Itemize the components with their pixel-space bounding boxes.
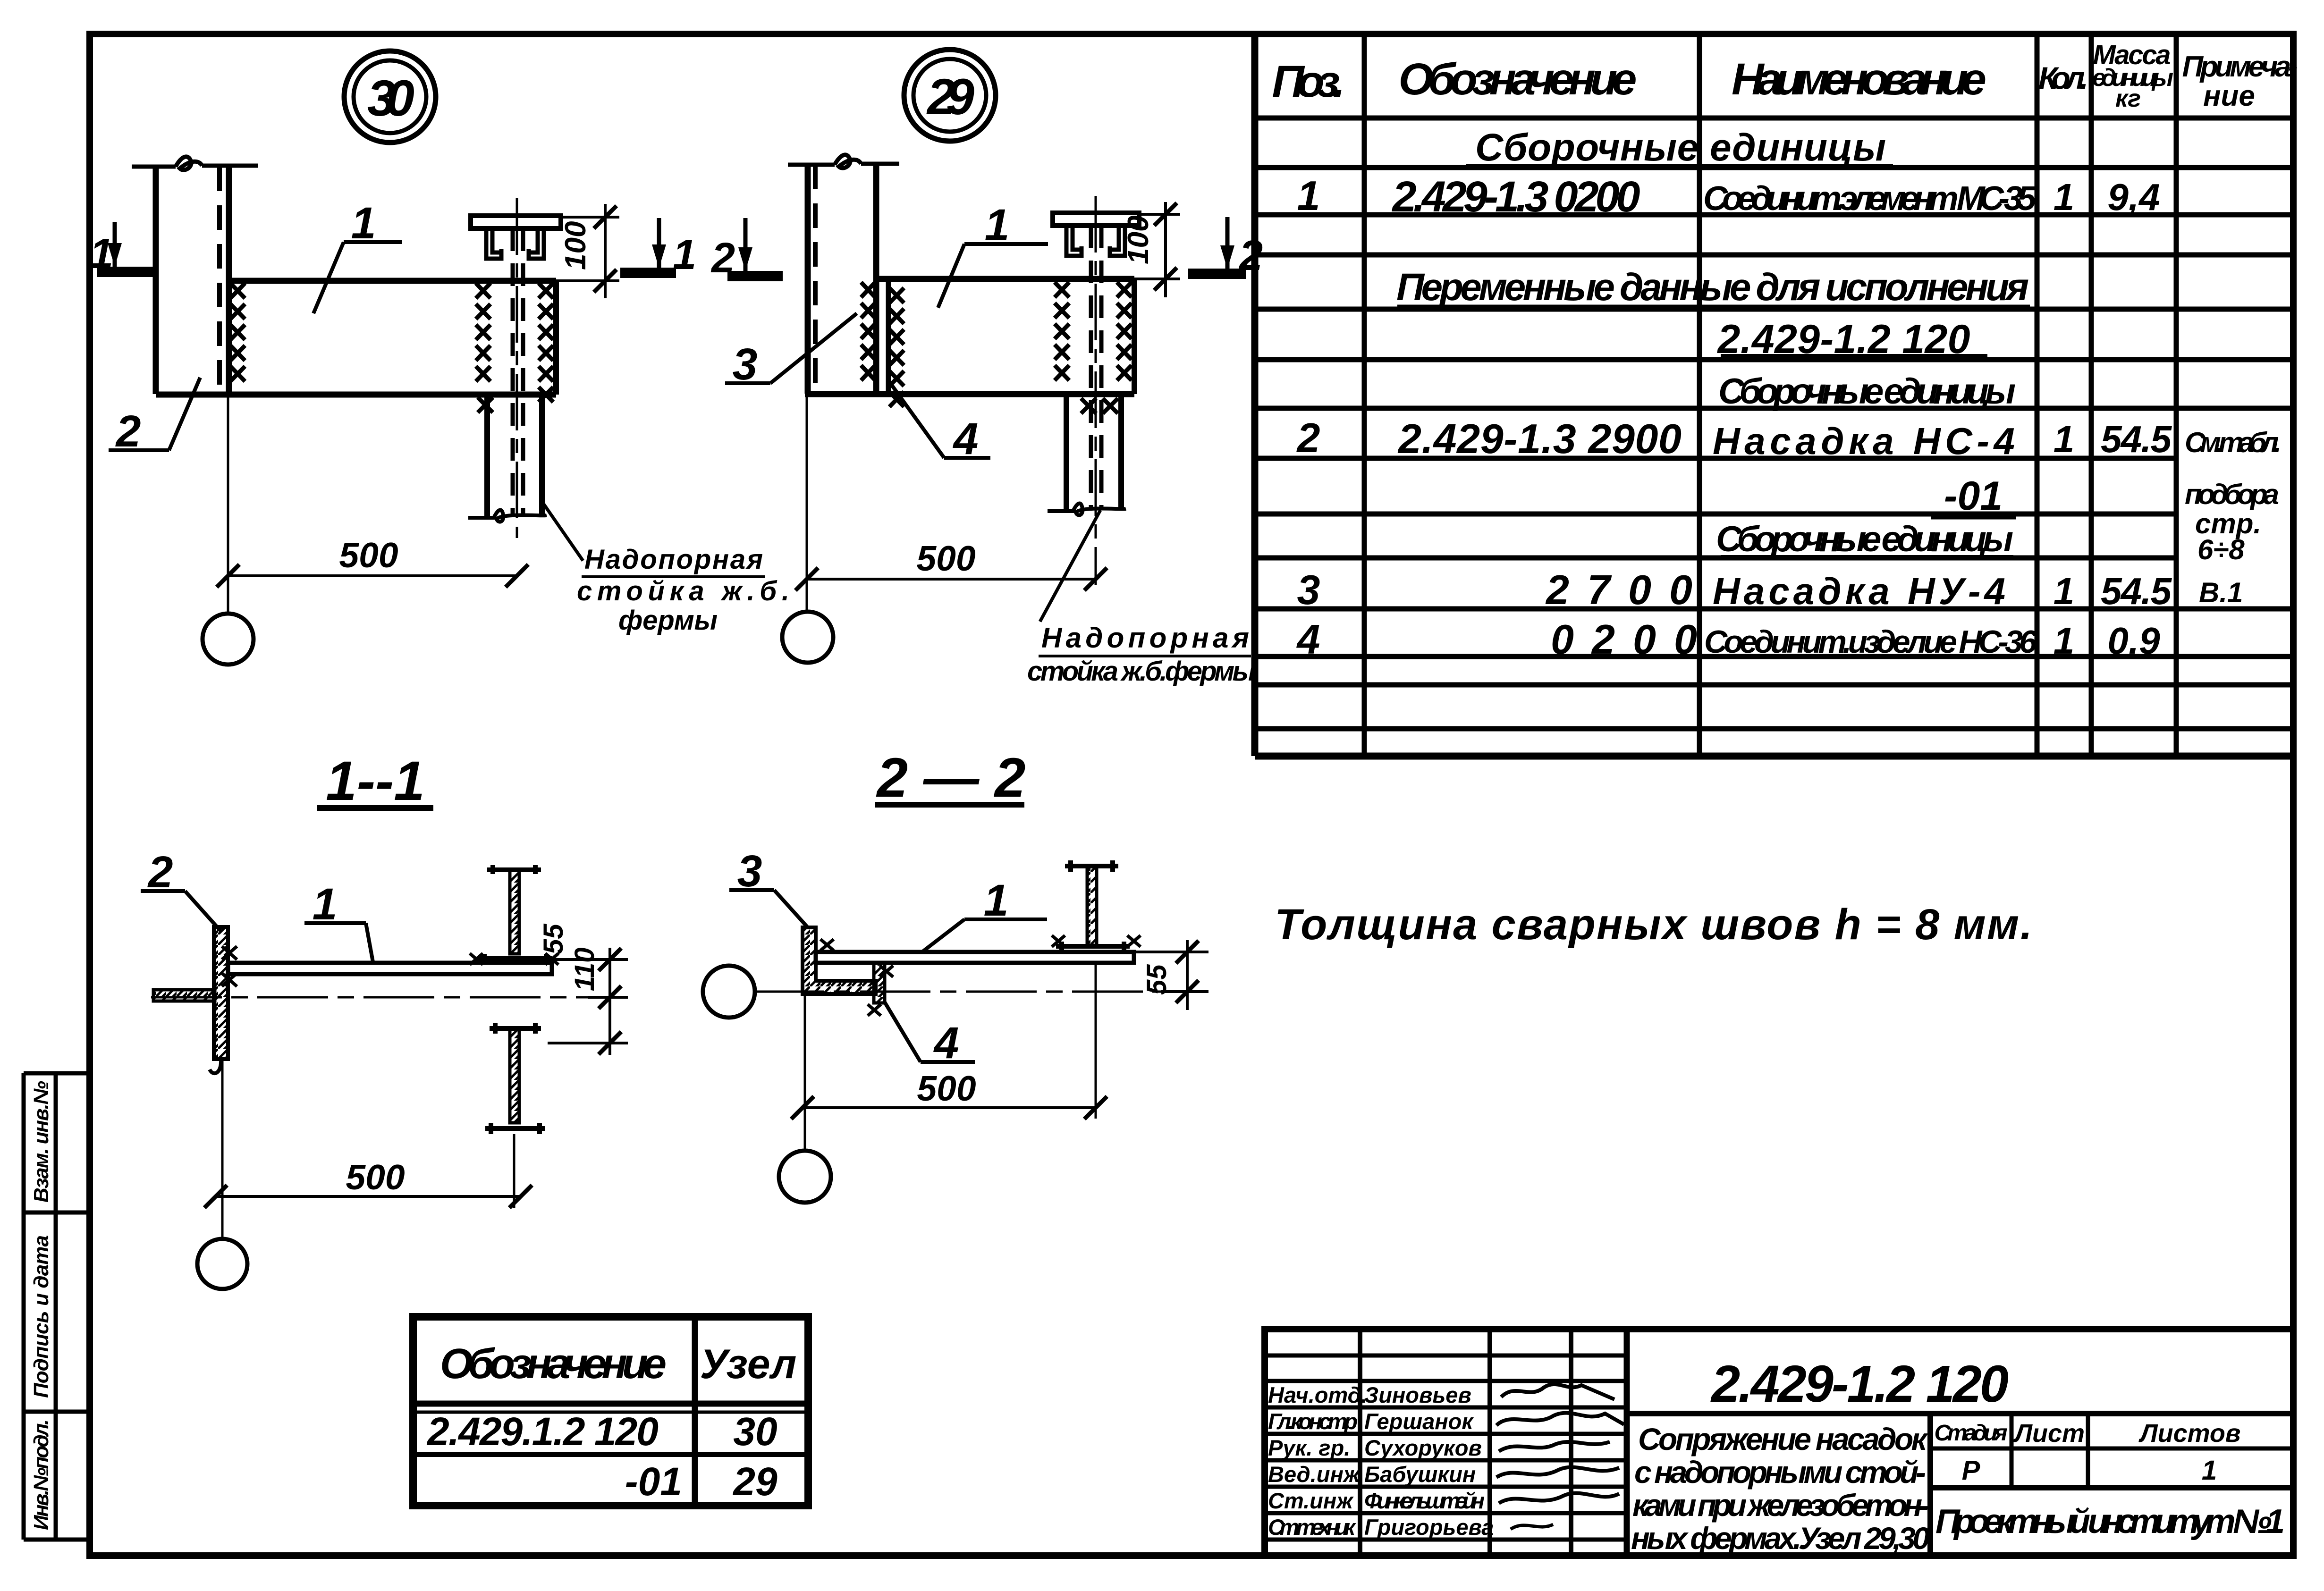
s22 leader 3 bbox=[729, 890, 808, 928]
column bottom break line bbox=[1048, 504, 1126, 515]
svg-text:2: 2 bbox=[115, 406, 141, 456]
leader 4 bbox=[892, 385, 990, 458]
signature table horizontals bbox=[1265, 1354, 1627, 1358]
svg-text:2.429-1.3 0200: 2.429-1.3 0200 bbox=[1392, 173, 1640, 221]
svg-text:500: 500 bbox=[917, 1069, 976, 1108]
leader 1 bbox=[938, 244, 1048, 308]
beam bottom line bbox=[805, 391, 1134, 397]
svg-text:2: 2 bbox=[147, 847, 173, 897]
s22 grid circle left bbox=[703, 966, 755, 1018]
dimension 500 bbox=[228, 574, 517, 577]
stadiya list listov box bbox=[1927, 1414, 1933, 1556]
column top edge with break bbox=[132, 157, 258, 170]
svg-text:подбора: подбора bbox=[2185, 479, 2279, 510]
svg-text:500: 500 bbox=[346, 1157, 405, 1197]
svg-text:Сборочные единицы: Сборочные единицы bbox=[1475, 126, 1886, 169]
stakan left wall with hook bbox=[486, 228, 501, 259]
svg-text:стойка ж.б.фермы: стойка ж.б.фермы bbox=[1027, 656, 1256, 687]
svg-text:Взам. инв.№: Взам. инв.№ bbox=[30, 1081, 53, 1203]
svg-text:1: 1 bbox=[984, 875, 1009, 926]
section mark 2 left bbox=[727, 271, 783, 281]
svg-text:3: 3 bbox=[733, 339, 758, 389]
stakan right wall with hook bbox=[1110, 226, 1125, 256]
s11 axis line bbox=[151, 996, 625, 999]
svg-text:1: 1 bbox=[90, 230, 113, 278]
svg-text:Нач.отд.: Нач.отд. bbox=[1268, 1382, 1368, 1407]
beam bottom line bbox=[156, 392, 556, 398]
stakan axis line bbox=[516, 198, 518, 538]
doc number box bbox=[1627, 1411, 2293, 1416]
s11 weld marks bbox=[222, 946, 558, 986]
weld strip left of stakan bbox=[476, 283, 490, 381]
svg-text:Бабушкин: Бабушкин bbox=[1364, 1462, 1476, 1487]
column hidden dashed line bbox=[813, 165, 818, 394]
svg-text:500: 500 bbox=[916, 539, 975, 578]
section mark 2 right bbox=[1188, 269, 1246, 279]
svg-text:3: 3 bbox=[1297, 566, 1320, 613]
svg-text:2: 2 bbox=[710, 235, 735, 282]
s22 leader 4 bbox=[884, 1001, 975, 1062]
axis line under column bbox=[227, 395, 229, 614]
svg-text:Обозначение: Обозначение bbox=[440, 1340, 667, 1388]
cap plate of nasadka bbox=[471, 216, 561, 228]
weld marks under beam bbox=[1081, 398, 1118, 413]
svg-text:2—2: 2—2 bbox=[876, 747, 1026, 809]
svg-text:30: 30 bbox=[367, 69, 414, 126]
svg-text:9,4: 9,4 bbox=[2107, 176, 2160, 218]
svg-text:4: 4 bbox=[1296, 616, 1320, 663]
weld strip left of plate bbox=[861, 282, 875, 380]
s22 verticals to dim bbox=[804, 994, 806, 1150]
svg-text:кг: кг bbox=[2115, 85, 2141, 112]
weld strip right of plate bbox=[889, 288, 904, 407]
inner dashed lines of stakan bbox=[511, 228, 515, 514]
spec table grid horizontals bbox=[1255, 116, 2293, 121]
column left line bbox=[153, 167, 159, 394]
s11 lower I-beam bottom flange bbox=[485, 1123, 545, 1134]
svg-text:1: 1 bbox=[2054, 570, 2075, 612]
svg-text:-01: -01 bbox=[625, 1459, 682, 1504]
svg-text:Поз.: Поз. bbox=[1272, 57, 1345, 107]
s22 element1 plate bbox=[816, 952, 1134, 963]
svg-text:Рук. гр.: Рук. гр. bbox=[1268, 1435, 1350, 1460]
s11 lower I-beam web bbox=[510, 1028, 519, 1123]
s11 leader 2 bbox=[141, 891, 220, 931]
s11 axis vertical to circle bbox=[221, 1059, 224, 1239]
svg-text:Надопорная: Надопорная bbox=[1041, 622, 1249, 654]
node marker circle 29 bbox=[904, 50, 996, 141]
svg-text:1: 1 bbox=[673, 231, 696, 278]
s22 I-beam top flange bbox=[1065, 860, 1118, 872]
svg-text:Финкельштейн: Финкельштейн bbox=[1364, 1488, 1485, 1513]
svg-text:Проектный институт №1: Проектный институт №1 bbox=[1935, 1503, 2285, 1540]
s11 upper I-beam web bbox=[510, 870, 519, 954]
section mark 1 left bbox=[97, 267, 154, 277]
cap plate of nasadka bbox=[1053, 213, 1139, 226]
svg-text:1: 1 bbox=[2054, 176, 2075, 218]
s11 plate item2 bottom hook bbox=[210, 1059, 221, 1073]
svg-text:фермы: фермы bbox=[618, 605, 718, 636]
svg-text:1: 1 bbox=[1297, 172, 1320, 219]
weld strip right of stakan bbox=[539, 283, 553, 402]
column right line bbox=[226, 166, 232, 394]
svg-text:В.1: В.1 bbox=[2199, 577, 2243, 608]
s22 weld marks bbox=[820, 935, 1141, 1016]
label nadopornaya stoyka leader bbox=[1040, 510, 1100, 622]
s11 leader 1 bbox=[304, 923, 373, 962]
connecting plate item 4 bbox=[886, 279, 891, 394]
weld strip right of stakan bbox=[1117, 282, 1132, 380]
support column below beam bbox=[484, 395, 490, 517]
dimension 500 bbox=[807, 578, 1096, 581]
svg-text:1: 1 bbox=[2054, 620, 2075, 662]
leader 1 bbox=[313, 242, 402, 313]
svg-text:Кол.: Кол. bbox=[2038, 60, 2088, 95]
column left line bbox=[805, 165, 811, 394]
svg-text:Сборочные единицы: Сборочные единицы bbox=[1718, 371, 2016, 412]
svg-text:54.5: 54.5 bbox=[2101, 418, 2172, 460]
s22 axis line bbox=[753, 991, 1208, 993]
column bottom break line bbox=[468, 510, 547, 522]
signature squiggles bbox=[1501, 1384, 1614, 1399]
s11 upper I-beam flange top bbox=[487, 865, 541, 874]
svg-text:Р: Р bbox=[1962, 1455, 1980, 1486]
weld strip left of stakan bbox=[1055, 282, 1069, 380]
s22 I-beam web bbox=[1087, 866, 1097, 945]
grid circle bbox=[203, 614, 254, 665]
left stamp column box bbox=[22, 1073, 26, 1540]
svg-text:Сборочные единицы: Сборочные единицы bbox=[1716, 519, 2013, 559]
svg-text:29: 29 bbox=[926, 68, 974, 125]
svg-text:Подпись и дата: Подпись и дата bbox=[30, 1235, 53, 1398]
beam end plate right bbox=[1132, 279, 1137, 394]
beam top line bbox=[876, 276, 1134, 282]
svg-text:Зиновьев: Зиновьев bbox=[1364, 1382, 1471, 1407]
svg-text:2: 2 bbox=[1296, 414, 1320, 461]
svg-text:4: 4 bbox=[953, 414, 979, 464]
s11 dim 500 bbox=[216, 1195, 521, 1198]
svg-text:500: 500 bbox=[339, 535, 398, 575]
svg-text:1: 1 bbox=[351, 198, 376, 248]
svg-text:Обозначение: Обозначение bbox=[1399, 54, 1637, 104]
svg-text:6÷8: 6÷8 bbox=[2197, 534, 2245, 565]
leader 2 bbox=[109, 378, 200, 450]
svg-text:Григорьева: Григорьева bbox=[1364, 1515, 1494, 1540]
signature table verticals bbox=[1358, 1329, 1362, 1556]
svg-text:ние: ние bbox=[2203, 80, 2255, 112]
s11 element1 plate bbox=[228, 963, 552, 974]
svg-text:1: 1 bbox=[985, 200, 1010, 250]
stakan right wall with hook bbox=[529, 228, 544, 259]
s22 angle item3 bbox=[803, 927, 876, 994]
title block outer bbox=[1265, 1329, 2293, 1556]
svg-text:Насадка НУ-4: Насадка НУ-4 bbox=[1713, 570, 2005, 612]
support column below beam bbox=[1064, 394, 1069, 511]
svg-text:Гл.констр: Гл.констр bbox=[1268, 1409, 1358, 1434]
svg-text:1: 1 bbox=[2054, 418, 2075, 460]
svg-text:Гершанок: Гершанок bbox=[1364, 1409, 1474, 1434]
svg-text:Сопряжение насадок: Сопряжение насадок bbox=[1638, 1422, 1929, 1456]
dimension 100 bbox=[556, 204, 619, 298]
svg-text:0.9: 0.9 bbox=[2107, 620, 2160, 662]
svg-text:Переменные данные для испол: Переменные данные для исполнения bbox=[1396, 266, 2029, 309]
svg-text:1: 1 bbox=[313, 879, 338, 929]
svg-text:100: 100 bbox=[559, 221, 592, 270]
stakan left wall with hook bbox=[1066, 226, 1082, 256]
svg-text:54.5: 54.5 bbox=[2101, 570, 2172, 612]
axis line under column bbox=[806, 394, 808, 612]
svg-text:1--1: 1--1 bbox=[326, 750, 425, 812]
svg-text:55: 55 bbox=[1141, 964, 1172, 995]
svg-text:Соединит.элемент МС-35: Соединит.элемент МС-35 bbox=[1703, 180, 2037, 218]
s22 I-beam bottom flange bbox=[1056, 942, 1130, 952]
weld strip on column face bbox=[230, 283, 245, 381]
s11 plate item2 vertical bbox=[214, 927, 228, 1059]
leader 3 bbox=[725, 313, 857, 383]
svg-text:Насадка НС-4: Насадка НС-4 bbox=[1713, 420, 2015, 462]
s11 grid circle bbox=[197, 1239, 247, 1289]
svg-text:29: 29 bbox=[732, 1459, 777, 1504]
weld marks under beam bbox=[478, 397, 493, 412]
svg-text:-01: -01 bbox=[1944, 473, 2003, 519]
svg-text:См.табл.: См.табл. bbox=[2185, 427, 2282, 458]
svg-text:с надопорными стой-: с надопорными стой- bbox=[1634, 1455, 1926, 1490]
label nadopornaya stoyka leader bbox=[542, 502, 583, 561]
column hidden dashed line bbox=[217, 167, 222, 394]
s22 dim 500 bbox=[803, 1106, 1096, 1109]
section mark 1 right bbox=[620, 268, 676, 278]
svg-text:1: 1 bbox=[2202, 1455, 2217, 1486]
grid circle bbox=[782, 612, 833, 663]
svg-text:ками при железобетон-: ками при железобетон- bbox=[1632, 1488, 1929, 1523]
stakan axis line bbox=[1095, 196, 1097, 585]
svg-text:4: 4 bbox=[933, 1018, 959, 1068]
s22 leader 1 bbox=[921, 919, 1047, 952]
svg-text:Лист: Лист bbox=[2013, 1419, 2085, 1448]
svg-text:Узел: Узел bbox=[700, 1340, 797, 1387]
uzel table box bbox=[413, 1317, 808, 1506]
svg-text:Инв.№подл.: Инв.№подл. bbox=[30, 1419, 53, 1530]
dimension 100 bbox=[1134, 202, 1180, 297]
s22 dim 55 bbox=[1134, 940, 1208, 1010]
svg-text:110: 110 bbox=[569, 948, 600, 991]
s22 grid circle bottom bbox=[779, 1151, 831, 1203]
inner dashed lines of stakan bbox=[1089, 226, 1093, 508]
svg-text:Сухоруков: Сухоруков bbox=[1364, 1435, 1482, 1460]
svg-text:Листов: Листов bbox=[2138, 1419, 2240, 1448]
svg-text:Вед.инж: Вед.инж bbox=[1268, 1462, 1361, 1487]
node marker circle 30 bbox=[344, 51, 436, 143]
svg-text:Ст.инж: Ст.инж bbox=[1268, 1488, 1354, 1513]
column right line bbox=[873, 164, 879, 394]
svg-text:2.429-1.3 2900: 2.429-1.3 2900 bbox=[1397, 415, 1682, 462]
beam end plate right bbox=[553, 281, 559, 395]
svg-text:30: 30 bbox=[733, 1409, 777, 1454]
column top edge with break bbox=[788, 155, 899, 168]
svg-text:Толщина сварных швов h: Толщина сварных швов h = 8 мм. bbox=[1275, 901, 2032, 949]
svg-text:Соединит.изделие НС-36: Соединит.изделие НС-36 bbox=[1704, 624, 2037, 660]
s11 lower I-beam top flange bbox=[490, 1023, 541, 1034]
svg-text:Примеча-: Примеча- bbox=[2182, 51, 2298, 83]
svg-text:100: 100 bbox=[1122, 216, 1155, 264]
s11 dim 55-110 bbox=[548, 948, 628, 1055]
svg-text:Стадия: Стадия bbox=[1935, 1421, 2008, 1446]
svg-text:Ст.техник: Ст.техник bbox=[1268, 1515, 1356, 1540]
spec table grid verticals bbox=[1251, 34, 1259, 756]
s11 flange piece left bbox=[153, 990, 215, 1001]
s11 upper I-beam bottom flange bbox=[479, 954, 552, 963]
svg-text:2.429-1.2 120: 2.429-1.2 120 bbox=[1710, 1355, 2009, 1413]
svg-text:2.429.1.2 120: 2.429.1.2 120 bbox=[426, 1409, 659, 1454]
svg-text:3: 3 bbox=[737, 846, 762, 896]
svg-text:ных фермах.Узел 29,30: ных фермах.Узел 29,30 bbox=[1631, 1521, 1930, 1556]
s22 plate item4 bbox=[874, 963, 885, 1003]
svg-text:55: 55 bbox=[538, 924, 569, 954]
svg-text:Наименование: Наименование bbox=[1732, 54, 1986, 104]
beam top line bbox=[229, 278, 556, 284]
svg-text:Надопорная: Надопорная bbox=[584, 544, 763, 575]
